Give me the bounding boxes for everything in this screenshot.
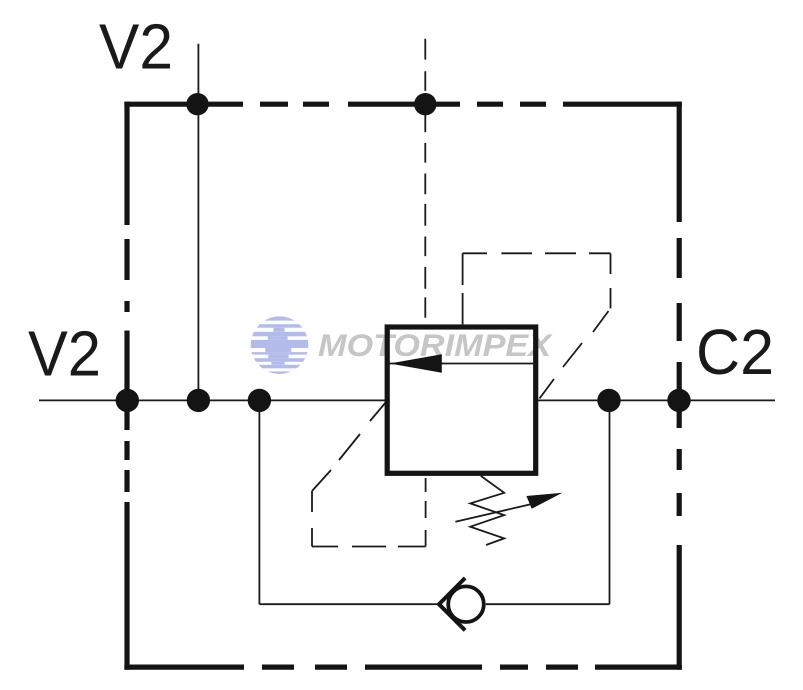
boundary right side <box>677 102 682 670</box>
pilot path: valve top to upper dashed loop <box>463 253 611 324</box>
check valve branch: right riser <box>609 400 611 604</box>
svg-text:V2: V2 <box>28 318 101 390</box>
valve U1 square body <box>387 327 536 473</box>
check valve seat <box>439 578 465 630</box>
junction dot: right border / main line <box>667 389 690 412</box>
svg-text:C2: C2 <box>696 316 774 388</box>
check valve CV1 ball <box>448 586 484 622</box>
spring (relief setting) <box>470 476 504 545</box>
junction dot: check branch riser / main line <box>597 389 620 412</box>
junction dot: V2 line / top border <box>186 93 208 115</box>
svg-text:V2: V2 <box>99 11 173 83</box>
pilot diagonal on left side of valve <box>312 402 386 491</box>
boundary bottom side <box>124 664 681 669</box>
valve body boundary (thick dashed border), top side <box>124 102 681 670</box>
check valve branch: left drop <box>258 400 260 604</box>
pilot line (thin dashed) above top border <box>424 39 426 91</box>
pilot diagonal to right side of main line <box>540 311 609 399</box>
boundary left side <box>124 102 129 670</box>
junction dot: check branch / main line <box>248 389 271 412</box>
watermark globe logo <box>248 316 312 374</box>
junction dot: V2 top line / main line <box>187 389 210 412</box>
valve internal flow arrow (points left) <box>390 354 442 373</box>
adjustment arrow head <box>526 493 562 509</box>
V2 top port line <box>197 44 199 401</box>
main line V2(left) to valve <box>39 399 385 401</box>
junction dot: left border / main line <box>116 389 139 412</box>
valve internal flow line <box>387 363 535 365</box>
adjustment arrow line <box>455 503 535 522</box>
junction dot: pilot line / top border <box>414 93 436 115</box>
check valve branch: bottom right run <box>486 603 610 605</box>
pilot line from top dot down to valve top <box>424 113 426 318</box>
check valve branch: bottom left run <box>259 603 439 605</box>
main line valve to C2(right) <box>538 399 775 401</box>
pilot lower-left dashed loop <box>312 478 426 547</box>
